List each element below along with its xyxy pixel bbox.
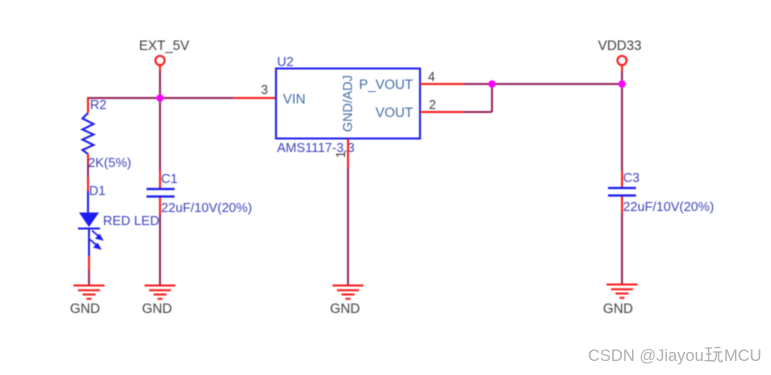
wire: pin2 up to junction — [491, 84, 493, 112]
LED light arrows — [90, 231, 104, 250]
wire: C3 to ground — [621, 213, 623, 284]
power symbol EXT_5V — [155, 56, 164, 71]
pin stub: R2 bottom — [87, 154, 89, 162]
wire: junction down to C1 — [159, 98, 161, 171]
svg-text:VDD33: VDD33 — [598, 38, 642, 53]
svg-text:2K(5%): 2K(5%) — [88, 155, 131, 170]
svg-text:EXT_5V: EXT_5V — [139, 38, 189, 53]
svg-text:GND: GND — [142, 301, 172, 316]
svg-text:U2: U2 — [277, 54, 294, 69]
pin stub: C3 top — [621, 171, 623, 187]
pin stub: C3 bottom — [621, 197, 623, 214]
pin stub: R2 top — [87, 97, 89, 113]
svg-text:2: 2 — [429, 98, 436, 112]
wire: junction to VDD33 — [492, 83, 622, 85]
svg-text:VOUT: VOUT — [375, 105, 413, 120]
svg-text:GND: GND — [70, 301, 100, 316]
svg-text:P_VOUT: P_VOUT — [359, 77, 413, 92]
resistor R2 — [83, 113, 94, 154]
wire: R2 to D1 — [87, 162, 89, 177]
svg-text:R2: R2 — [90, 97, 107, 112]
wire: junction down to C3 — [621, 84, 623, 171]
pin stub: C1 bottom — [159, 198, 161, 215]
svg-text:4: 4 — [428, 70, 435, 84]
pin stub: U2 pin 3 VIN — [233, 97, 276, 99]
junction node VDD33 — [618, 80, 625, 87]
svg-text:GND/ADJ: GND/ADJ — [340, 75, 355, 132]
wire: D1 to ground — [88, 270, 90, 285]
svg-text:CSDN @Jiayou: CSDN @Jiayou — [588, 347, 704, 365]
pin stub: U2 pin 4 P_VOUT — [420, 83, 464, 85]
capacitor C1 — [147, 189, 175, 197]
svg-text:1: 1 — [334, 151, 348, 158]
svg-text:22uF/10V(20%): 22uF/10V(20%) — [623, 199, 714, 214]
junction node VOUT — [488, 80, 495, 87]
svg-text:VIN: VIN — [283, 92, 306, 107]
LED D1 — [78, 191, 100, 256]
ground U2 — [333, 286, 364, 299]
svg-text:D1: D1 — [89, 183, 106, 198]
ground C1 — [145, 286, 176, 299]
op-amp U2 body — [276, 69, 420, 139]
ground D1 — [74, 286, 105, 299]
wire: EXT_5V net horizontal R2 to junction — [88, 97, 160, 99]
svg-text:22uF/10V(20%): 22uF/10V(20%) — [161, 200, 252, 215]
svg-text:GND: GND — [330, 301, 360, 316]
wire: EXT_5V symbol down to junction — [159, 70, 161, 98]
svg-text:MCU: MCU — [724, 347, 762, 365]
capacitor C3 — [608, 188, 636, 196]
wire: junction to VIN pin — [160, 97, 233, 99]
svg-text:C3: C3 — [623, 170, 640, 185]
watermark CSDN — [588, 340, 771, 372]
svg-text:3: 3 — [261, 83, 268, 97]
wire: pin4 to junction — [464, 83, 492, 85]
pin stub: D1 anode — [87, 177, 89, 191]
wire: VDD33 down to junction — [621, 71, 623, 84]
ground C3 — [607, 285, 638, 298]
pin stub: U2 pin 1 GND — [347, 139, 349, 168]
pin stub: D1 cathode — [88, 256, 90, 270]
wire: pin2 right — [464, 111, 492, 113]
wire: C1 to ground — [159, 214, 161, 285]
wire: U2 GND to ground — [347, 168, 349, 285]
junction node EXT_5V — [156, 94, 163, 101]
svg-text:GND: GND — [603, 301, 633, 316]
svg-text:C1: C1 — [161, 171, 178, 186]
pin stub: U2 pin 2 VOUT — [420, 111, 464, 113]
svg-text:RED LED: RED LED — [103, 213, 159, 228]
power symbol VDD33 — [617, 56, 626, 71]
pin stub: C1 top — [159, 171, 161, 188]
